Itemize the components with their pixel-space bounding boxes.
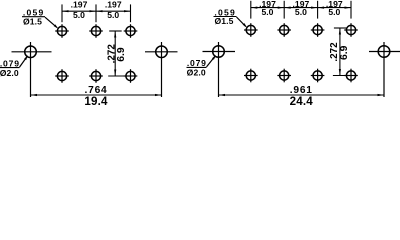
hole &#216;2.0 left B: [203, 42, 236, 97]
dimension .272/6.9 vertical B: [329, 28, 350, 76]
hole &#216;1.5 top-2 B: [277, 23, 291, 37]
svg-text:5.0: 5.0: [262, 7, 274, 17]
hole &#216;1.5 top-4 B: [344, 23, 358, 37]
svg-text:19.4: 19.4: [84, 95, 108, 107]
svg-text:6.9: 6.9: [339, 45, 350, 60]
hole &#216;2.0 right B: [369, 42, 400, 97]
label hole size .059/&#216;1.5 A: [22, 8, 58, 29]
label hole size .079/&#216;2.0 B: [187, 55, 217, 78]
svg-text:6.9: 6.9: [116, 47, 127, 62]
hole &#216;1.5 bottom-2 A: [89, 69, 103, 83]
dimension .764/19.4 overall A: [31, 85, 162, 108]
hole &#216;2.0 left A: [12, 42, 52, 97]
hole &#216;2.0 right A: [145, 42, 178, 97]
dimension chain .197/5.0 top B: [251, 0, 351, 19]
svg-text:.197: .197: [105, 0, 122, 10]
hole &#216;1.5 bottom-3 A: [124, 69, 138, 83]
hole &#216;1.5 top-3 B: [311, 23, 325, 37]
hole &#216;1.5 top-1 B: [244, 23, 258, 37]
svg-text:Ø2.0: Ø2.0: [0, 68, 19, 78]
hole &#216;1.5 bottom-1 A: [55, 69, 69, 83]
hole &#216;1.5 bottom-1 B: [244, 69, 258, 83]
svg-text:Ø2.0: Ø2.0: [187, 68, 206, 78]
hole &#216;1.5 top-3 A: [124, 24, 138, 38]
svg-text:5.0: 5.0: [295, 7, 307, 17]
svg-text:5.0: 5.0: [328, 7, 340, 17]
hole &#216;1.5 bottom-4 B: [344, 69, 358, 83]
svg-text:Ø1.5: Ø1.5: [214, 16, 233, 26]
svg-text:.079: .079: [0, 58, 20, 68]
svg-text:Ø1.5: Ø1.5: [23, 16, 42, 26]
svg-text:5.0: 5.0: [73, 10, 85, 20]
svg-text:.197: .197: [71, 0, 88, 10]
dimension .272/6.9 vertical A: [106, 31, 127, 76]
hole &#216;1.5 top-2 A: [89, 24, 103, 38]
svg-text:5.0: 5.0: [107, 10, 119, 20]
svg-text:.079: .079: [187, 58, 207, 68]
hole &#216;1.5 bottom-3 B: [311, 69, 325, 83]
label hole size .059/&#216;1.5 B: [214, 7, 248, 27]
label hole size .079/&#216;2.0 A: [0, 55, 28, 78]
svg-text:24.4: 24.4: [290, 95, 314, 107]
dimension chain .197/5.0 top A: [62, 0, 131, 22]
hole &#216;1.5 top-1 A: [55, 24, 69, 38]
dimension .961/24.4 overall B: [219, 85, 385, 108]
hole &#216;1.5 bottom-2 B: [277, 69, 291, 83]
